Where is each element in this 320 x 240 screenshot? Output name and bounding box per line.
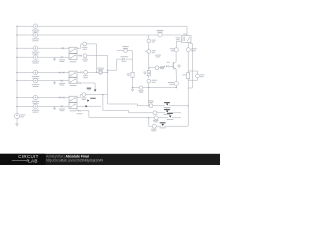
diode D8 row8 xyxy=(59,105,65,111)
node flag VC xyxy=(167,113,174,120)
diode D13 xyxy=(80,71,82,73)
relay SW1B xyxy=(69,54,77,60)
wire row D xyxy=(149,118,153,126)
wire vbus low xyxy=(148,83,150,106)
wire row7 net xyxy=(17,97,69,99)
label R13 xyxy=(155,55,161,58)
wire row B 3 xyxy=(169,112,181,114)
wire loop left xyxy=(107,59,122,70)
relay SW2A xyxy=(69,71,77,77)
wire collector xyxy=(175,52,177,62)
diode D5 xyxy=(166,62,170,68)
wire row4 net xyxy=(17,56,69,58)
wire LMP5 right xyxy=(86,94,108,96)
wire LMP2 to bus xyxy=(87,55,108,57)
wire base branch 2 xyxy=(159,66,165,67)
wire diode to base xyxy=(169,65,173,67)
wire loop right xyxy=(125,51,132,59)
voltage source V1 xyxy=(14,113,25,118)
resistor R10 xyxy=(155,66,165,70)
wire SW1A out xyxy=(77,44,82,48)
wire rc top rail xyxy=(188,70,197,72)
wire row B 2 xyxy=(157,112,165,114)
voltage source VG4 xyxy=(32,55,40,64)
diode D2 xyxy=(77,109,83,115)
resistor R14 xyxy=(122,46,129,52)
node flag NC1 xyxy=(87,98,95,102)
diode D4 xyxy=(143,71,150,76)
diode D11 xyxy=(77,55,82,57)
svg-text:LAB: LAB xyxy=(28,159,38,164)
lamp LMP3 xyxy=(83,70,89,78)
relay SW3B xyxy=(69,103,77,109)
footer bar xyxy=(0,154,220,165)
wire rly left pin xyxy=(176,41,181,48)
wire c5 down xyxy=(187,52,189,71)
wire left vertical bus xyxy=(16,26,18,113)
voltage source VG6 xyxy=(32,78,40,87)
svg-text:http:/circuitlab.com/c/b2fd48p: http:/circuitlab.com/c/b2fd48p6qk2d49 xyxy=(46,159,103,163)
wire row1 net xyxy=(17,26,187,35)
ammeter AM5 xyxy=(153,116,159,123)
diode D12 xyxy=(77,82,80,85)
ammeter AM2 row2 xyxy=(156,30,163,37)
diode D6 row6 xyxy=(59,80,65,86)
battery BAT1 xyxy=(170,48,179,52)
wire emitter to rail xyxy=(149,86,177,88)
wire bus Vb2 xyxy=(106,56,108,104)
wire row2 net xyxy=(17,34,181,36)
node flag VB xyxy=(164,109,171,115)
ground GND1 xyxy=(15,122,19,126)
ground GND2 xyxy=(131,88,134,92)
wire row5 net xyxy=(17,72,69,74)
ammeter AM4 xyxy=(153,111,157,115)
resistor R5 row5 xyxy=(59,72,64,74)
node flag VD xyxy=(159,122,166,128)
voltage source VG3 xyxy=(32,46,40,55)
capacitor C5 xyxy=(186,48,197,52)
wire rly right pin vbus xyxy=(188,42,192,88)
voltmeter XMM1 xyxy=(97,68,104,75)
voltage source VG5 xyxy=(32,70,40,79)
wire loop top xyxy=(117,50,124,52)
wire base branch xyxy=(149,67,155,69)
wire row8 net xyxy=(17,105,69,107)
capacitor C6 xyxy=(145,50,156,54)
wire D12 right xyxy=(81,82,95,84)
wire D13 to LMP3 xyxy=(82,71,85,73)
wire ammeter left xyxy=(133,87,140,89)
label SW1 xyxy=(70,61,77,62)
wire row A 2 xyxy=(153,105,165,107)
relay SW3A xyxy=(69,96,77,102)
wire vbus right xyxy=(148,35,150,78)
wire SW3A out xyxy=(77,95,82,98)
diode D1 1N4148 xyxy=(120,56,128,62)
wire rly mid pin xyxy=(187,42,189,47)
node flag NC2 xyxy=(86,105,88,107)
ground row4 stub xyxy=(53,57,56,60)
wire junction dots xyxy=(16,26,188,119)
lamp LMP2 xyxy=(82,54,88,62)
wire LMP1 to bus xyxy=(87,43,97,45)
wire row C tail xyxy=(149,117,169,119)
wire XMM1 right xyxy=(103,71,108,73)
label SW2 xyxy=(70,85,77,86)
voltage source VG2 xyxy=(32,33,40,42)
wire bus outer xyxy=(103,95,105,111)
wire c9 down xyxy=(132,77,134,87)
wire row D 2 xyxy=(156,125,161,127)
lamp LMP1 xyxy=(82,42,88,50)
capacitor C8 xyxy=(196,71,205,80)
wire SW3B out xyxy=(77,105,101,107)
ground row8 stub xyxy=(53,106,56,109)
wire rc bottom rail xyxy=(188,79,197,81)
node flag VA xyxy=(164,102,171,110)
voltage source VG8 xyxy=(32,104,40,113)
ground row6 stub xyxy=(53,81,56,84)
relay SW2B xyxy=(69,78,77,84)
wire loop right down xyxy=(132,59,134,72)
wire SW2A out xyxy=(77,71,80,73)
wire row A 3 xyxy=(169,105,189,107)
wire emitter xyxy=(175,69,177,81)
wire row3 net xyxy=(17,47,69,49)
wire row6 net xyxy=(17,80,69,82)
CircuitLab logo xyxy=(12,154,39,163)
node flag OUT_B xyxy=(87,88,97,92)
source VG9 xyxy=(168,81,179,85)
wire to flag NB xyxy=(94,83,96,89)
wire row A xyxy=(107,104,148,106)
relay SW1A xyxy=(69,47,77,53)
wire row D 3 xyxy=(164,125,188,127)
wire right vbus down xyxy=(187,80,189,126)
wire row B xyxy=(105,111,153,113)
lamp LMP5 xyxy=(81,93,86,100)
wire row C 3 xyxy=(172,117,181,119)
wire ammeter right xyxy=(143,87,149,89)
ammeter AM1 xyxy=(138,86,144,93)
capacitor C9 xyxy=(127,72,134,77)
resistor R15 xyxy=(182,71,189,80)
ammeter AM6 xyxy=(151,124,157,131)
ammeter AM3 xyxy=(148,100,154,107)
relay RLY1 xyxy=(176,34,192,43)
footer text xyxy=(46,154,103,162)
capacitor C4 xyxy=(147,39,156,43)
voltage source VG7 xyxy=(32,95,40,104)
capacitor C7 xyxy=(147,79,157,83)
resistor R7 row7 xyxy=(59,97,64,99)
resistor R3 row4 xyxy=(59,56,65,62)
transistor Q1 xyxy=(173,62,181,70)
wire V1 to ground xyxy=(16,119,18,122)
diode D3 row3 xyxy=(62,47,64,49)
wire LMP3 right xyxy=(88,71,99,73)
label SW3 xyxy=(70,110,77,111)
wire bus Va xyxy=(96,44,98,72)
voltage source VG1 xyxy=(32,24,40,33)
wire D2 to row C xyxy=(81,111,149,118)
